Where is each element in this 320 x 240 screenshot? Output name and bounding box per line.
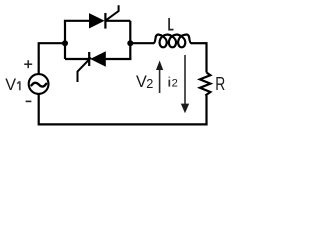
svg-text:2: 2 [146,77,153,91]
minus sign [26,100,32,102]
wire bottom branch right [106,58,132,60]
label i2 [168,77,170,87]
inductor L [154,35,192,48]
wire left rail of thyristor pair [64,21,66,59]
gate of T1 [106,5,119,20]
arrow i2 (down) [181,55,189,113]
wire resistor to bottom-right corner [205,96,207,125]
node A junction dot [62,40,68,46]
wire inductor to top-right corner [205,42,207,72]
thyristor T1 (top, pointing right) [89,5,119,28]
wire top branch right [105,20,130,22]
wire source bottom [38,94,40,126]
resistor R [200,73,211,96]
wire inductor to right rail [191,42,206,44]
arrow V2 (up) [156,61,163,94]
thyristor T2 (bottom, pointing left) [78,51,106,82]
svg-text:V: V [5,76,16,94]
wire bottom branch left [65,58,89,60]
gate of T2 [78,58,92,82]
label L [169,18,173,30]
wire top branch left [64,20,89,22]
svg-text:2: 2 [172,78,178,90]
plus sign [24,60,32,68]
wire right rail of thyristor pair [129,21,131,59]
wire top-left from source to node A [39,43,65,74]
wire node B to inductor [130,42,153,44]
wire bottom [39,123,208,125]
node B junction dot [127,40,133,46]
voltage source V1 [29,74,49,94]
svg-text:R: R [215,74,225,94]
